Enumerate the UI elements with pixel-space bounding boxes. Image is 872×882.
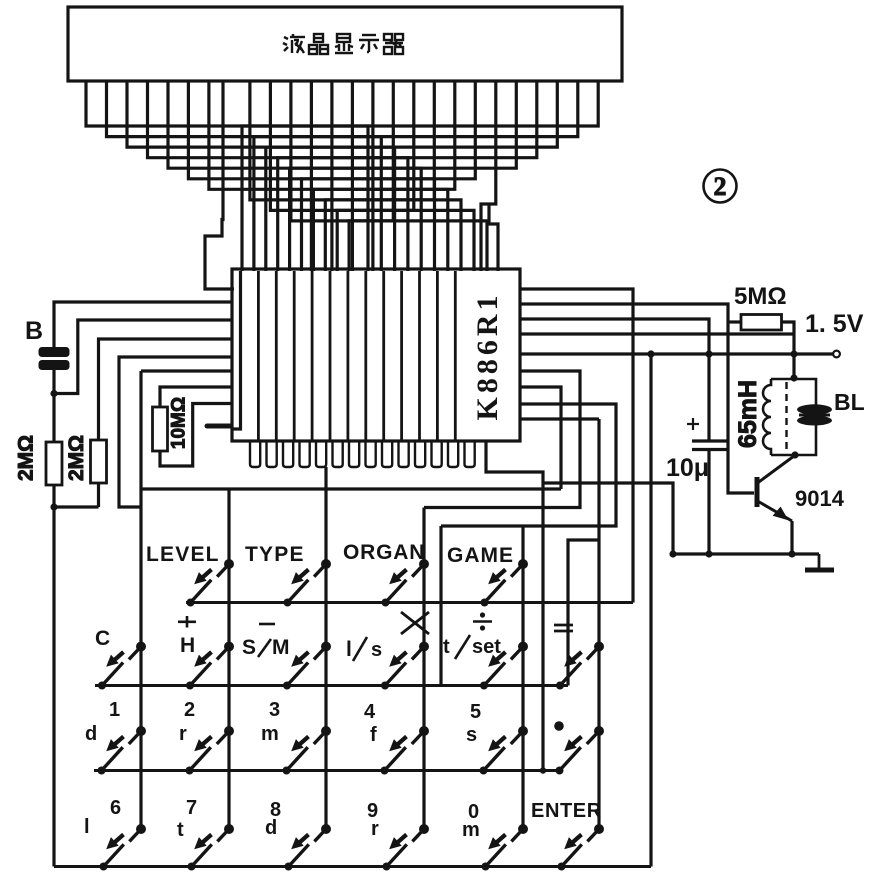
label 8 d xyxy=(265,799,281,839)
transistor Q1 base bar xyxy=(755,477,760,507)
wire LCD fanout left 6 xyxy=(188,81,434,271)
IC left pin 7 wire (to R3) xyxy=(160,387,232,407)
wire IC internal bus 2 xyxy=(257,271,260,440)
label 2 r xyxy=(179,699,195,745)
IC bottom pin 8 xyxy=(366,440,376,467)
svg-text:TYPE: TYPE xyxy=(245,543,305,566)
label TYPE xyxy=(245,543,305,566)
svg-text:set: set xyxy=(472,636,501,658)
wire LCD fanout right 5 xyxy=(290,81,517,271)
key switch ENTER xyxy=(558,824,605,871)
inductor L1 65mH coil xyxy=(763,379,771,455)
svg-text:GAME: GAME xyxy=(447,544,514,567)
wire LCD fanout left 4 xyxy=(148,81,408,271)
wire IC right pin 9 to column 6 xyxy=(520,417,599,420)
IC bottom pin 12 xyxy=(432,440,442,467)
wire LCD fanout right 10 xyxy=(349,81,393,271)
svg-text:LEVEL: LEVEL xyxy=(146,543,220,566)
wire IC internal bus 4 xyxy=(293,271,296,440)
keyboard enclosure left wire xyxy=(52,507,55,867)
IC left pin 2 wire (to B) xyxy=(54,302,232,348)
wire LCD fanout right 7 xyxy=(313,81,454,271)
capacitor C1 10μ plates xyxy=(692,441,727,450)
svg-text:65mH: 65mH xyxy=(734,380,762,448)
keyboard enclosure bottom (row bus 4) xyxy=(54,865,651,868)
wire IC internal bus 7 xyxy=(346,271,349,440)
wire row feed H489 xyxy=(141,487,561,490)
wire to ground xyxy=(818,554,821,568)
node jog-bus3 junction xyxy=(540,767,546,773)
key switch C xyxy=(98,642,146,690)
wire LCD fanout straight left 1 xyxy=(310,81,313,271)
wire V441 to row bus 2 xyxy=(439,526,442,686)
label 3 m xyxy=(261,699,280,745)
node A junction xyxy=(50,390,57,397)
IC bottom pin 14 xyxy=(465,440,475,467)
LCD label text 液晶显示器 xyxy=(283,34,403,54)
wire LCD fanout right 4 xyxy=(278,81,537,271)
label BL xyxy=(834,389,865,415)
svg-text:m: m xyxy=(261,723,279,745)
node rail-794 junction xyxy=(790,350,797,357)
IC bottom pin 9 xyxy=(382,440,392,467)
IC bottom pin 4 xyxy=(300,440,310,467)
label 6 l xyxy=(84,797,121,838)
wire LCD fanout straight left 2 xyxy=(330,81,333,271)
capacitor C1 10μ plus sign xyxy=(687,418,699,430)
svg-text:2MΩ: 2MΩ xyxy=(15,435,38,481)
key switch LEVEL xyxy=(187,559,235,607)
label R1 2MΩ xyxy=(15,435,38,481)
wire IC internal bus 12 xyxy=(436,271,439,440)
label - S/M xyxy=(242,624,290,659)
key switch equals xyxy=(556,642,604,690)
svg-text:3: 3 xyxy=(269,699,280,721)
wire R2 bottom xyxy=(97,483,100,507)
wire IC internal bus 6 xyxy=(329,271,332,440)
ground symbol xyxy=(805,568,834,573)
keyboard enclosure right wire xyxy=(649,354,652,867)
wire column 4 xyxy=(422,508,425,830)
key switch minus-S/M xyxy=(283,642,331,690)
IC U1 label K886R1 xyxy=(471,292,504,421)
row bus 1 xyxy=(186,601,633,604)
IC left pin 5 wire xyxy=(119,357,232,507)
wire IC internal bus 1 xyxy=(233,271,241,429)
row bus 3 xyxy=(94,769,563,772)
label 7 t xyxy=(177,797,197,841)
IC left pin 4 wire (to R2) xyxy=(99,339,233,440)
label x 1/s xyxy=(346,612,429,661)
IC bottom pin 6 xyxy=(333,440,343,467)
svg-text:t: t xyxy=(177,819,184,841)
key switch GAME xyxy=(481,559,529,607)
label R2 2MΩ xyxy=(65,435,88,481)
key switch 3/m xyxy=(283,726,332,775)
svg-text:2MΩ: 2MΩ xyxy=(65,435,88,481)
svg-text:r: r xyxy=(179,723,187,745)
label LEVEL xyxy=(146,543,220,566)
key switch divide-t/set xyxy=(480,642,528,690)
key switch 8/d xyxy=(285,824,332,871)
wire column 2 xyxy=(227,489,230,829)
label C1 10μ xyxy=(666,454,709,482)
svg-text:10MΩ: 10MΩ xyxy=(169,397,190,449)
label decimal point xyxy=(554,721,564,731)
svg-text:M: M xyxy=(272,636,290,659)
svg-text:6: 6 xyxy=(110,797,121,819)
inductor L1 core (dashed) xyxy=(785,382,787,452)
svg-text:1: 1 xyxy=(109,699,120,721)
wire LCD fanout left 5 xyxy=(168,81,421,271)
wire emitter to ground rail xyxy=(790,521,793,554)
node rail-651 junction xyxy=(647,350,654,357)
key switch 9/r xyxy=(383,824,430,871)
wire LCD fanout right jog xyxy=(481,81,496,271)
svg-text:9014: 9014 xyxy=(795,486,845,511)
wire LCD fanout left 10 xyxy=(270,81,474,271)
IC bottom pin 10 xyxy=(399,440,409,467)
wire IC internal bus 3 xyxy=(275,271,278,440)
wire node C to R2 xyxy=(54,505,99,508)
IC bottom pin 2 xyxy=(267,440,277,467)
IC right pin 3 wire (to C1) xyxy=(520,319,709,441)
wire LCD fanout straight right 2 xyxy=(371,81,374,271)
IC bottom pin 3 xyxy=(283,440,293,467)
wire IC internal bus 5 xyxy=(311,271,314,440)
svg-text:d: d xyxy=(265,817,277,839)
wire IC internal bus 9 xyxy=(382,271,385,440)
label + H xyxy=(178,616,196,657)
key switch plus-H xyxy=(186,642,234,690)
IC right pin 2 wire (to base node) xyxy=(520,304,754,493)
wire R4 to node D xyxy=(782,322,795,379)
svg-text:ENTER: ENTER xyxy=(531,800,602,822)
wire LCD fanout left 9 xyxy=(250,81,461,271)
key switch 6/l xyxy=(100,824,147,871)
label ENTER xyxy=(531,800,602,822)
key switch 1/d xyxy=(98,726,147,775)
label 1 d xyxy=(85,699,120,745)
supply rail 1.5V xyxy=(520,352,833,355)
wire LCD fanout right jog 2 xyxy=(489,204,498,271)
terminal 1.5V xyxy=(833,351,840,358)
IC bottom pin 5 xyxy=(316,440,326,467)
wire column 5 xyxy=(521,526,524,829)
svg-text:BL: BL xyxy=(834,389,865,415)
svg-text:10μ: 10μ xyxy=(666,454,709,482)
svg-text:r: r xyxy=(371,818,379,840)
IC bottom pin 13 xyxy=(448,440,458,467)
wire IC internal bus 10 xyxy=(400,271,403,440)
svg-text:l: l xyxy=(84,816,90,838)
label GAME xyxy=(447,544,514,567)
wire LCD fanout left 3 xyxy=(127,81,395,271)
key switch 4/f xyxy=(381,726,430,775)
wire V561 to IC right pin 7 xyxy=(520,387,561,489)
key switch TYPE xyxy=(284,559,332,607)
label ORGAN xyxy=(343,541,425,564)
transistor Q1 collector xyxy=(758,456,795,483)
wire column feed H526 xyxy=(441,404,616,526)
svg-text:S: S xyxy=(242,636,256,659)
wire IC internal bus 11 xyxy=(418,271,421,440)
wire base node to R4 xyxy=(728,320,741,323)
resistor R4 5MΩ xyxy=(741,315,782,331)
wire LCD fanout right 8 xyxy=(325,81,434,271)
IC bottom pin 7 xyxy=(349,440,359,467)
resistor R2 2MΩ xyxy=(91,440,107,483)
ground rail xyxy=(673,552,819,555)
key switch 2/r xyxy=(186,726,235,775)
wire IC bottom jog to row bus 3 xyxy=(486,441,543,771)
svg-text:H: H xyxy=(180,634,195,657)
row bus 2 xyxy=(95,684,568,687)
wire LCD fanout left 2 xyxy=(107,81,382,271)
wire LCD fanout right 9 xyxy=(337,81,414,271)
wire column 6 xyxy=(597,419,600,829)
svg-text:2: 2 xyxy=(184,699,195,721)
IC right pin 4 wire xyxy=(520,332,794,335)
IC left pin 6 wire (column feed) xyxy=(141,369,232,372)
wire LCD fanout right 3 xyxy=(266,81,558,271)
svg-text:s: s xyxy=(466,724,477,746)
IC left pin 9 stub xyxy=(205,424,233,429)
wire column 1 xyxy=(139,371,142,829)
label 1.5V xyxy=(805,310,864,338)
label 0 m xyxy=(462,801,480,841)
wire LCD fanout straight right 1 xyxy=(351,81,354,271)
label R3 10MΩ xyxy=(169,397,190,449)
label B xyxy=(25,317,43,345)
key switch decimal xyxy=(556,726,605,775)
label 5 s xyxy=(466,701,481,746)
svg-text:5: 5 xyxy=(470,701,481,723)
wire LCD fanout left 7 xyxy=(209,81,448,271)
label C xyxy=(95,627,110,650)
svg-text:C: C xyxy=(95,627,110,650)
node rail-709 junction xyxy=(705,350,712,357)
label 9 r xyxy=(367,800,379,840)
IC right pin 1 wire (to row bus 1) xyxy=(520,289,633,603)
wire column 3 xyxy=(324,467,327,829)
svg-text:s: s xyxy=(371,639,382,661)
svg-text:B: B xyxy=(25,317,43,345)
node ground-rail left junction xyxy=(669,550,676,557)
svg-text:ORGAN: ORGAN xyxy=(343,541,425,564)
label divide t/set xyxy=(443,612,501,659)
label L1 65mH xyxy=(734,380,762,448)
wire LCD fanout right 1 xyxy=(242,81,598,271)
label = xyxy=(554,625,573,631)
wire jog branch to ground-rail feed xyxy=(543,483,673,554)
buzzer BL element xyxy=(797,404,832,425)
key switch 7/t xyxy=(188,824,235,871)
wire IC internal bus 13 xyxy=(454,271,457,440)
IC left pin 3 wire xyxy=(54,320,232,394)
wire LCD fanout left 8 (to IC pin via jog) xyxy=(205,81,234,289)
node L1 bottom junction xyxy=(791,451,798,458)
resistor R3 10MΩ xyxy=(153,407,168,451)
wire LCD fanout left 1 xyxy=(86,81,368,271)
crystal B symbol xyxy=(39,348,69,370)
svg-text:d: d xyxy=(85,723,97,745)
wire LCD fanout right 6 xyxy=(302,81,476,271)
circled figure number 2 xyxy=(704,170,737,203)
IC bottom pin 11 xyxy=(415,440,425,467)
node ground-rail C1 junction xyxy=(705,550,712,557)
wire C1 to ground rail xyxy=(707,450,710,555)
IC U1 K886R1 body xyxy=(232,269,520,441)
key switch times-1/s xyxy=(381,642,429,690)
svg-text:m: m xyxy=(462,819,480,841)
node C junction xyxy=(50,503,57,510)
key switch 5/s xyxy=(480,726,529,775)
node D junction xyxy=(790,374,797,381)
svg-text:7: 7 xyxy=(186,797,197,819)
svg-text:2: 2 xyxy=(714,172,727,201)
wire R3 loop xyxy=(160,404,232,467)
svg-text:4: 4 xyxy=(364,701,376,723)
wire H540 bus2 link xyxy=(568,540,599,686)
svg-text:f: f xyxy=(370,724,377,746)
resistor R1 2MΩ xyxy=(46,442,62,485)
wire LCD fanout left 11 xyxy=(291,81,487,271)
svg-text:l: l xyxy=(346,638,352,661)
wire B to node A xyxy=(52,370,55,394)
wire node A to R1 xyxy=(52,394,55,443)
inductor L1 frame xyxy=(771,379,816,455)
wire R1 bottom to node C xyxy=(52,485,55,507)
svg-text:1. 5V: 1. 5V xyxy=(805,310,864,338)
svg-text:5MΩ: 5MΩ xyxy=(734,283,787,310)
svg-text:t: t xyxy=(443,636,450,658)
node emitter junction xyxy=(788,550,795,557)
label Q1 9014 xyxy=(795,486,845,511)
label 4 f xyxy=(364,701,377,746)
svg-text:K886R1: K886R1 xyxy=(471,292,504,421)
wire column feed H507 xyxy=(424,371,580,508)
wire LCD fanout right 2 xyxy=(254,81,578,271)
LCD display box (液晶显示器) xyxy=(68,7,622,81)
wire IC internal bus 8 xyxy=(364,271,367,440)
transistor Q1 emitter xyxy=(758,501,793,521)
label R4 5MΩ xyxy=(734,283,787,310)
key switch 0/m xyxy=(482,824,529,871)
key switch ORGAN xyxy=(382,559,430,607)
IC bottom pin 1 xyxy=(250,440,260,467)
